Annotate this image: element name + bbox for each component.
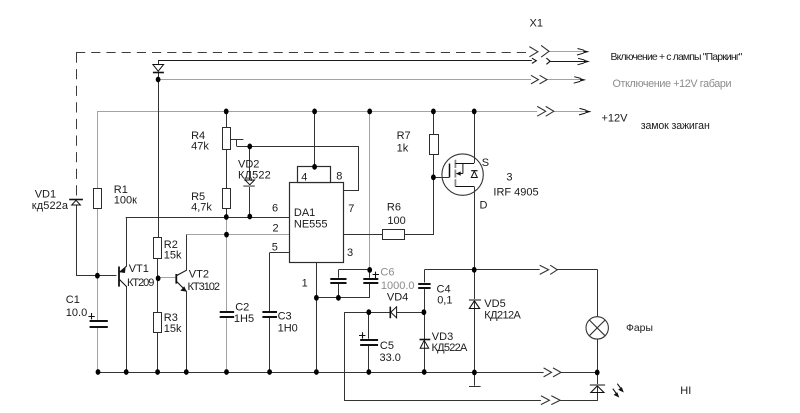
svg-text:C2: C2 [235, 301, 249, 313]
svg-text:47k: 47k [191, 140, 209, 152]
svg-text:КД212А: КД212А [484, 310, 521, 322]
svg-text:C1: C1 [66, 294, 80, 306]
svg-text:4,7k: 4,7k [191, 202, 212, 214]
svg-text:IRF 4905: IRF 4905 [493, 187, 538, 199]
svg-text:0,1: 0,1 [437, 295, 452, 307]
svg-text:КД522А: КД522А [432, 342, 468, 354]
svg-text:4: 4 [301, 172, 307, 184]
svg-text:C3: C3 [278, 311, 292, 323]
svg-text:X1: X1 [530, 18, 543, 30]
svg-text:100к: 100к [114, 195, 137, 207]
svg-text:1: 1 [302, 277, 308, 289]
svg-text:33.0: 33.0 [380, 352, 401, 364]
svg-text:HI: HI [680, 385, 691, 397]
svg-text:5: 5 [272, 241, 278, 253]
svg-text:2: 2 [273, 222, 279, 234]
svg-text:R7: R7 [397, 130, 411, 142]
svg-text:R6: R6 [387, 202, 401, 214]
svg-text:VT1: VT1 [129, 263, 149, 275]
svg-text:+12V: +12V [602, 113, 629, 125]
svg-text:VD4: VD4 [387, 291, 408, 303]
svg-text:3: 3 [506, 171, 512, 183]
svg-text:3: 3 [347, 247, 353, 259]
svg-text:VD5: VD5 [484, 298, 505, 310]
svg-text:8: 8 [336, 171, 342, 183]
svg-text:DA1: DA1 [294, 207, 315, 219]
svg-text:кд522а: кд522а [32, 200, 69, 212]
svg-text:6: 6 [272, 203, 278, 215]
svg-text:Включение + с лампы "Паркинг": Включение + с лампы "Паркинг" [611, 52, 743, 63]
svg-text:7: 7 [348, 203, 354, 215]
svg-text:замок зажиган: замок зажиган [641, 120, 710, 132]
svg-text:1Н0: 1Н0 [278, 323, 298, 335]
svg-text:VD1: VD1 [35, 189, 56, 201]
svg-text:КД522: КД522 [238, 169, 271, 181]
svg-text:Отключение +12V габари: Отключение +12V габари [613, 78, 732, 90]
svg-text:15k: 15k [164, 323, 182, 335]
svg-text:100: 100 [387, 215, 405, 227]
svg-text:C6: C6 [380, 267, 394, 279]
svg-text:КТ209: КТ209 [127, 277, 154, 289]
svg-text:S: S [482, 157, 489, 169]
svg-text:D: D [480, 200, 488, 212]
svg-text:1000.0: 1000.0 [381, 280, 415, 292]
svg-text:1k: 1k [397, 143, 409, 155]
svg-text:1Н5: 1Н5 [234, 313, 254, 325]
svg-text:C5: C5 [380, 340, 394, 352]
svg-text:NE555: NE555 [294, 219, 328, 231]
svg-text:15k: 15k [164, 250, 182, 262]
svg-text:VT2: VT2 [189, 268, 209, 280]
svg-text:10.0: 10.0 [66, 307, 87, 319]
svg-text:Фары: Фары [626, 323, 653, 334]
svg-text:КТ3102: КТ3102 [188, 281, 221, 293]
